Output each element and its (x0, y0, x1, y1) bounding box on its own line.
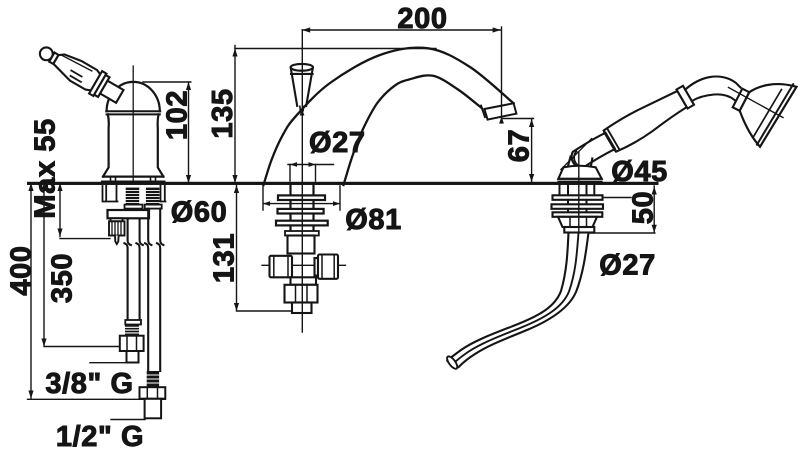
dim 102 handle height (143, 82, 191, 183)
dim 67 spout outlet height (503, 119, 534, 183)
stud nuts (125, 205, 143, 209)
spout shank below deck (291, 186, 314, 232)
shower holder (558, 157, 601, 182)
fitting 3/8 G (120, 320, 144, 363)
node valve centerline left (132, 66, 134, 182)
spout inner curve (344, 75, 482, 185)
svg-text:135: 135 (207, 88, 239, 138)
svg-text:Ø45: Ø45 (611, 156, 668, 188)
shower hose (447, 233, 588, 367)
svg-text:400: 400 (6, 245, 38, 295)
diverter knob (291, 64, 313, 111)
diverter valve body (262, 236, 346, 314)
svg-text:3/8" G: 3/8" G (45, 368, 133, 400)
shower mount shank below deck (560, 186, 595, 213)
deck line overlay (29, 182, 658, 185)
node shower axis tick (561, 139, 592, 170)
svg-text:350: 350 (47, 253, 79, 303)
dim O81 spout base (263, 186, 340, 210)
shower neck (685, 77, 740, 101)
svg-text:Ø81: Ø81 (345, 204, 402, 236)
shower hose end cap (445, 355, 459, 371)
svg-text:1/2" G: 1/2" G (56, 421, 144, 453)
node shower holder centerline (578, 152, 580, 233)
spout aerator tip (481, 103, 516, 119)
fitting 1/2 G (140, 371, 166, 418)
svg-text:Ø27: Ø27 (599, 250, 656, 282)
dim 400 hose length (28, 183, 166, 399)
spout outer curve (264, 48, 514, 185)
dim O27 spout tube (288, 165, 334, 182)
threaded stud left (126, 188, 160, 206)
dim 200 top spout reach (302, 27, 501, 123)
dim 135 spout height (235, 46, 436, 184)
mounting bracket left below deck (103, 186, 166, 202)
leader 3/8 G (90, 362, 127, 364)
deck line (29, 182, 658, 185)
svg-text:131: 131 (209, 233, 241, 283)
shower head bell (729, 84, 797, 147)
mounting plate (108, 210, 150, 218)
stop valve left (109, 218, 125, 244)
dim 131 valve depth (237, 184, 297, 311)
svg-text:200: 200 (397, 3, 447, 35)
leader 1/2 G (111, 419, 145, 421)
supply hose 3/8 (124, 219, 142, 321)
svg-text:Ø60: Ø60 (171, 196, 228, 228)
supply hose 1/2 (145, 209, 163, 371)
svg-text:Max 55: Max 55 (30, 118, 62, 218)
svg-text:102: 102 (162, 90, 194, 140)
shower mount washers and nut (552, 195, 604, 232)
spout shank ribs (276, 195, 328, 235)
node spout centerline (301, 30, 303, 332)
dim Max 55 deck thickness (60, 183, 110, 239)
svg-text:67: 67 (504, 129, 536, 162)
dim 350 hose length (44, 183, 128, 347)
valve body left (102, 82, 164, 182)
dim 50 shower shank (591, 186, 655, 233)
handle lever left (40, 47, 124, 102)
shower head connector ring (733, 89, 750, 111)
svg-text:Ø27: Ø27 (309, 127, 366, 159)
svg-text:50: 50 (628, 191, 660, 224)
shower handle grip (572, 86, 694, 168)
